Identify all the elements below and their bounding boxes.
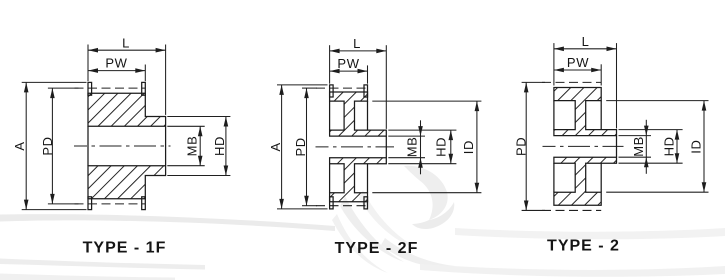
dimension PD pulley1 bottom arrow <box>50 194 55 204</box>
pulley2 right face edge upper <box>367 101 369 130</box>
dimension HD pulley3 bottom arrow <box>675 153 680 163</box>
dimension PD pulley1 extension line top <box>48 87 79 89</box>
svg-text:TYPE - 2F: TYPE - 2F <box>335 240 419 257</box>
dimension ID pulley3 bottom arrow <box>702 182 707 192</box>
dimension ID pulley2 bottom arrow <box>475 183 480 193</box>
pulley1 pitch line bottom (dashed) <box>75 203 146 205</box>
pulley1 centerline <box>74 145 171 147</box>
dimension ID pulley2 dimension line <box>476 101 478 193</box>
dimension PW pulley2 dimension line <box>330 70 368 72</box>
dimension MB pulley1 bottom arrow <box>198 156 203 166</box>
pulley1 body upper hatched section <box>88 93 166 126</box>
pulley3 pitch line top (dashed) <box>542 81 601 83</box>
svg-text:TYPE - 1F: TYPE - 1F <box>83 240 167 257</box>
pulley1 flange tab bottom left <box>88 197 92 210</box>
svg-text:PD: PD <box>513 137 528 156</box>
pulley3 left face edge lower <box>553 163 555 192</box>
dimension L pulley2 extension line left <box>329 45 331 83</box>
pulley2 left face edge upper <box>329 101 331 130</box>
dimension PD pulley2 dimension line <box>306 88 308 206</box>
dimension PW pulley3 left arrow <box>554 68 564 73</box>
pulley2 flange tab top right <box>364 85 368 97</box>
pulley1 hub end face edge <box>165 126 167 165</box>
dimension L pulley3 left arrow <box>554 47 564 52</box>
dimension L pulley1 extension line left <box>87 45 89 82</box>
dimension PD pulley3 dimension line <box>525 82 527 210</box>
dimension HD pulley2 bottom arrow <box>449 154 454 164</box>
dimension HD pulley2 dimension line <box>450 130 452 164</box>
dimension MB pulley3 dimension line <box>645 120 647 174</box>
pulley3 left face edge upper <box>553 101 555 130</box>
dimension A pulley1 extension line bottom <box>22 209 87 211</box>
dimension HD pulley2 extension line bottom <box>388 163 456 165</box>
svg-text:L: L <box>122 35 130 50</box>
dimension MB pulley3 top outside arrow <box>644 126 649 136</box>
pulley1 flange tab bottom right <box>142 197 146 210</box>
pulley2 lower hatched section (rim web hub wall) <box>330 158 387 202</box>
watermark band bottom left <box>0 274 175 280</box>
watermark band upper left <box>0 214 335 231</box>
dimension PW pulley2 extension line right <box>367 65 369 83</box>
dimension ID pulley3 extension line bottom <box>606 191 708 193</box>
svg-text:PW: PW <box>105 56 127 71</box>
dimension HD pulley3 dimension line <box>676 130 678 164</box>
dimension L pulley1 dimension line <box>88 49 166 51</box>
dimension MB pulley2 dimension line <box>420 120 422 174</box>
pulley3 right face edge upper <box>600 101 602 130</box>
dimension HD pulley3 top arrow <box>675 130 680 140</box>
dimension PW pulley1 left arrow <box>88 68 98 73</box>
pulley3 hub end face edge <box>616 136 618 158</box>
dimension PD pulley3 top arrow <box>524 82 529 92</box>
dimension PW pulley3 extension line right <box>600 64 602 85</box>
dimension PD pulley2 extension line top <box>302 87 317 89</box>
svg-text:HD: HD <box>212 136 227 156</box>
dimension L pulley3 dimension line <box>554 48 617 50</box>
dimension A pulley1 bottom arrow <box>24 200 29 210</box>
dimension HD pulley1 bottom arrow <box>224 166 229 176</box>
dimension PW pulley2 left arrow <box>330 69 340 74</box>
dimension PD pulley3 bottom arrow <box>524 200 529 210</box>
dimension L pulley2 dimension line <box>330 50 387 52</box>
svg-text:PW: PW <box>337 56 359 71</box>
dimension L pulley2 extension line right <box>385 45 387 129</box>
dimension PD pulley1 extension line bottom <box>48 203 79 205</box>
dimension HD pulley2 extension line top <box>388 129 456 131</box>
svg-text:MB: MB <box>405 137 420 158</box>
watermark tail streak <box>332 214 388 273</box>
watermark feather streak 2 <box>359 190 419 249</box>
watermark eagle head <box>404 166 448 220</box>
svg-text:ID: ID <box>461 140 476 154</box>
pulley1 flange tab top left <box>88 82 92 95</box>
dimension MB pulley1 dimension line <box>199 126 201 165</box>
dimension L pulley3 right arrow <box>607 47 617 52</box>
svg-text:MB: MB <box>184 136 199 157</box>
dimension MB pulley2 bottom outside arrow <box>418 158 423 168</box>
dimension L pulley1 right arrow <box>156 48 166 53</box>
dimension HD pulley3 extension line top <box>619 129 683 131</box>
dimension PD pulley3 extension line bottom <box>522 209 545 211</box>
pulley3 right face edge lower <box>600 163 602 192</box>
dimension MB pulley1 extension line top <box>167 125 204 127</box>
pulley3 lower hatched section (rim web hub wall) <box>554 157 617 205</box>
pulley2 pitch line top (dashed) <box>316 87 368 89</box>
dimension PW pulley2 right arrow <box>358 69 368 74</box>
pulley1 flange tab top right <box>142 82 146 95</box>
watermark feather streak 1 <box>340 196 404 262</box>
svg-text:ID: ID <box>688 139 703 153</box>
pulley2 flange tab bottom right <box>364 197 368 209</box>
dimension PW pulley1 right arrow <box>135 68 145 73</box>
dimension L pulley3 extension line left <box>553 43 555 85</box>
dimension MB pulley3 bottom outside arrow <box>644 157 649 167</box>
dimension L pulley3 extension line right <box>616 43 618 128</box>
dimension A pulley2 top arrow <box>279 85 284 95</box>
pulley1 body lower hatched section <box>88 166 166 199</box>
dimension MB pulley2 top outside arrow <box>418 126 423 136</box>
pulley1 pitch line top (dashed) <box>75 87 146 89</box>
watermark band right upper <box>455 228 725 239</box>
watermark band mid left <box>0 259 205 270</box>
svg-text:L: L <box>582 34 590 49</box>
dimension ID pulley3 extension line top <box>606 100 708 102</box>
dimension HD pulley3 extension line bottom <box>619 162 683 164</box>
dimension A pulley1 dimension line <box>25 82 27 209</box>
dimension MB pulley1 extension line bottom <box>167 165 204 167</box>
svg-text:MB: MB <box>631 136 646 157</box>
dimension MB pulley2 extension line bottom <box>388 157 425 159</box>
dimension MB pulley1 top arrow <box>198 126 203 136</box>
pulley2 upper hatched section (rim web hub wall) <box>330 92 387 136</box>
dimension PW pulley3 dimension line <box>554 69 601 71</box>
dimension PD pulley2 extension line bottom <box>302 205 317 207</box>
pulley2 hub end face edge <box>385 136 387 158</box>
svg-text:HD: HD <box>434 137 449 157</box>
dimension HD pulley1 dimension line <box>225 117 227 176</box>
dimension ID pulley3 top arrow <box>702 101 707 111</box>
dimension A pulley2 extension line bottom <box>277 208 328 210</box>
dimension L pulley2 left arrow <box>330 49 340 54</box>
dimension HD pulley1 top arrow <box>224 117 229 127</box>
dimension L pulley1 left arrow <box>88 48 98 53</box>
svg-text:A: A <box>12 141 27 150</box>
dimension ID pulley2 extension line bottom <box>372 192 481 194</box>
dimension HD pulley2 top arrow <box>449 130 454 140</box>
pulley1 bore left edge <box>87 126 89 165</box>
dimension HD pulley1 extension line top <box>167 116 230 118</box>
svg-text:PD: PD <box>293 137 308 156</box>
dimension PD pulley2 bottom arrow <box>304 196 309 206</box>
dimension MB pulley2 extension line top <box>388 135 425 137</box>
pulley2 right face edge lower <box>367 164 369 193</box>
dimension MB pulley3 extension line top <box>619 135 652 137</box>
svg-text:HD: HD <box>662 136 677 156</box>
dimension A pulley1 extension line top <box>22 81 87 83</box>
dimension A pulley1 top arrow <box>24 82 29 92</box>
dimension L pulley2 right arrow <box>376 49 386 54</box>
dimension PW pulley3 right arrow <box>591 68 601 73</box>
pulley3 upper hatched section (rim web hub wall) <box>554 88 617 136</box>
dimension PD pulley1 top arrow <box>50 88 55 98</box>
dimension PD pulley2 top arrow <box>304 88 309 98</box>
watermark eagle beak <box>412 202 454 229</box>
svg-text:L: L <box>353 36 361 51</box>
svg-text:PW: PW <box>567 55 589 70</box>
svg-text:TYPE - 2: TYPE - 2 <box>547 238 620 255</box>
dimension A pulley2 dimension line <box>281 85 283 209</box>
dimension A pulley2 extension line top <box>277 84 328 86</box>
dimension L pulley1 extension line right <box>165 45 167 115</box>
pulley3 centerline <box>543 145 624 147</box>
pulley2 centerline <box>316 146 395 148</box>
watermark band right lower <box>420 264 725 277</box>
watermark feather streak 3 <box>381 238 455 267</box>
dimension ID pulley2 extension line top <box>372 100 481 102</box>
svg-text:PD: PD <box>40 136 55 155</box>
dimension ID pulley3 dimension line <box>703 101 705 193</box>
svg-text:A: A <box>268 142 283 151</box>
pulley3 pitch line bottom (dashed) <box>542 209 601 211</box>
dimension PD pulley3 extension line top <box>522 81 545 83</box>
dimension A pulley2 bottom arrow <box>279 199 284 209</box>
pulley2 left face edge lower <box>329 164 331 193</box>
dimension HD pulley1 extension line bottom <box>167 175 230 177</box>
pulley2 flange tab bottom left <box>330 197 334 209</box>
pulley2 flange tab top left <box>330 85 334 97</box>
dimension MB pulley3 extension line bottom <box>619 156 652 158</box>
dimension PD pulley1 dimension line <box>51 88 53 204</box>
pulley2 pitch line bottom (dashed) <box>316 205 368 207</box>
dimension ID pulley2 top arrow <box>475 101 480 111</box>
dimension PW pulley1 extension line right <box>144 65 146 82</box>
dimension PW pulley1 dimension line <box>88 70 145 72</box>
